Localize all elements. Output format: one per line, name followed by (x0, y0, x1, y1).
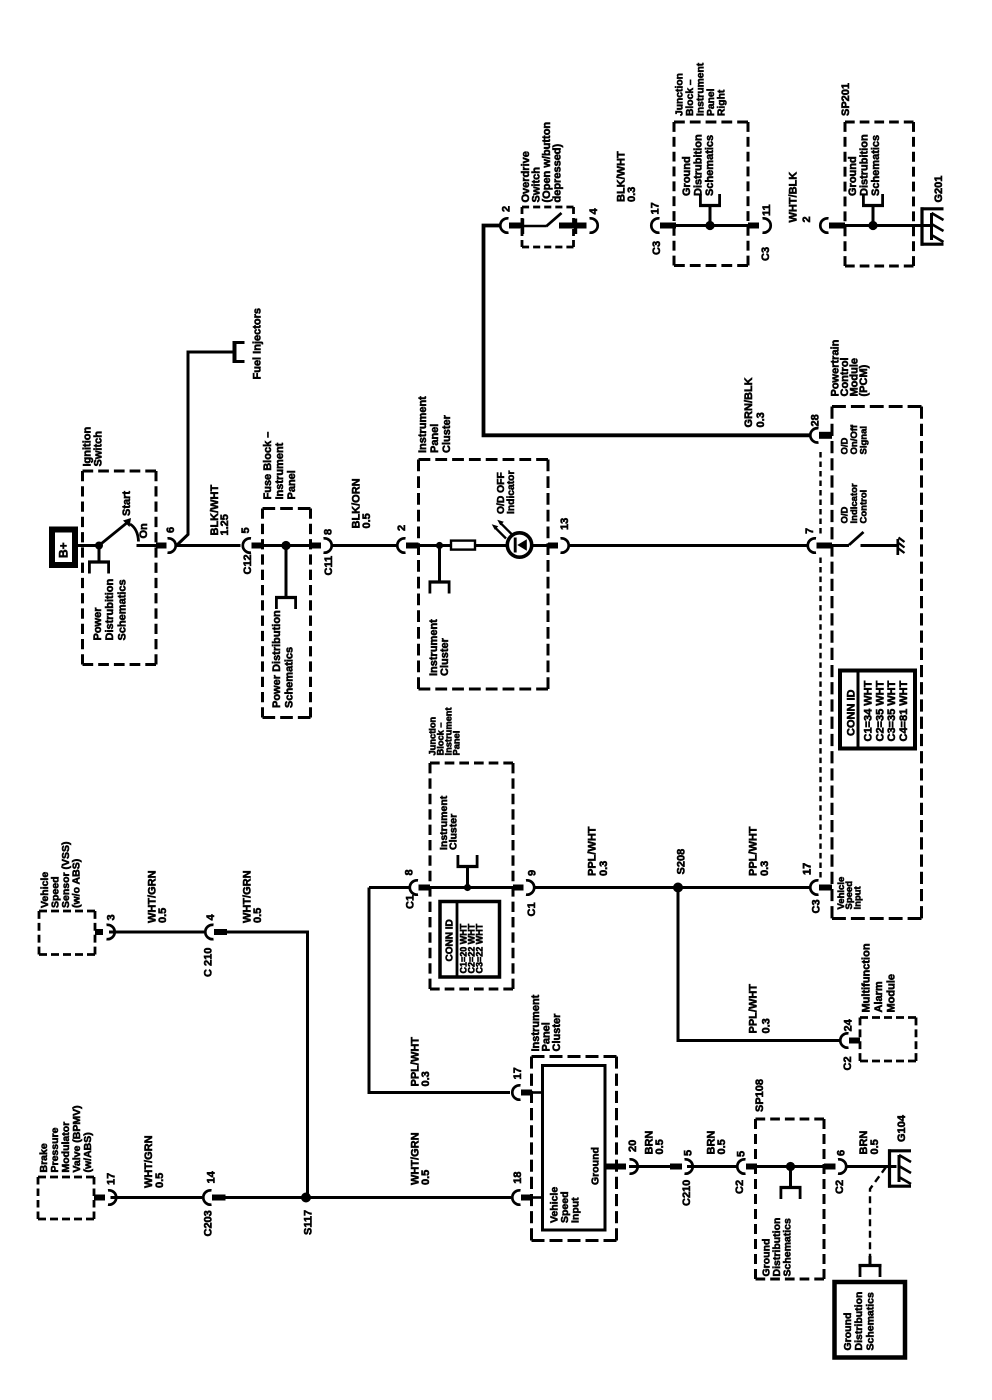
svg-text:2: 2 (396, 525, 408, 531)
svg-text:4: 4 (205, 914, 217, 921)
svg-text:(w/ABS): (w/ABS) (82, 1132, 94, 1172)
svg-text:WHT/BLK: WHT/BLK (788, 172, 800, 223)
svg-text:On: On (138, 523, 150, 539)
svg-text:1.25: 1.25 (219, 514, 231, 535)
svg-text:Ground: Ground (847, 156, 859, 196)
svg-text:Indicator: Indicator (506, 471, 517, 514)
svg-text:G104: G104 (896, 1114, 908, 1142)
svg-text:8: 8 (323, 529, 335, 535)
svg-text:13: 13 (559, 518, 571, 530)
svg-text:Junction: Junction (675, 73, 686, 116)
svg-text:Cluster: Cluster (448, 814, 460, 850)
svg-text:0.3: 0.3 (598, 861, 610, 876)
svg-text:Control: Control (859, 490, 870, 524)
svg-text:Power: Power (92, 607, 104, 641)
svg-text:C12: C12 (242, 554, 254, 574)
svg-text:Start: Start (121, 491, 133, 516)
svg-text:6: 6 (836, 1150, 848, 1156)
svg-text:SP201: SP201 (840, 83, 852, 116)
svg-text:Distrubition: Distrubition (693, 134, 705, 196)
svg-text:Alarm: Alarm (873, 981, 885, 1012)
svg-text:0.5: 0.5 (154, 1173, 166, 1188)
svg-text:Cluster: Cluster (439, 637, 451, 676)
svg-text:Distrubition: Distrubition (104, 579, 116, 641)
svg-text:PPL/WHT: PPL/WHT (587, 826, 599, 876)
svg-text:0.3: 0.3 (626, 187, 638, 202)
svg-text:C2: C2 (842, 1056, 854, 1070)
svg-text:Input: Input (853, 885, 864, 909)
svg-text:C3: C3 (811, 899, 823, 913)
svg-text:Switch: Switch (93, 431, 105, 467)
svg-text:0.5: 0.5 (716, 1139, 728, 1154)
svg-text:3: 3 (106, 914, 118, 920)
svg-text:Schematics: Schematics (117, 579, 129, 640)
svg-text:Schematics: Schematics (284, 647, 296, 708)
svg-text:CONN ID: CONN ID (846, 690, 858, 737)
svg-text:14: 14 (206, 1170, 218, 1183)
svg-text:2: 2 (501, 206, 513, 212)
svg-text:C203: C203 (203, 1210, 215, 1236)
svg-text:(PCM): (PCM) (858, 364, 870, 396)
svg-text:Panel: Panel (452, 731, 462, 756)
svg-text:C 210: C 210 (203, 948, 215, 977)
svg-text:17: 17 (512, 1067, 524, 1079)
svg-text:Distrubition: Distrubition (859, 134, 871, 196)
svg-text:24: 24 (843, 1018, 855, 1031)
svg-text:Block –: Block – (685, 79, 696, 116)
svg-text:C1: C1 (526, 902, 538, 916)
svg-text:28: 28 (810, 414, 822, 426)
svg-text:6: 6 (165, 527, 177, 533)
svg-text:B+: B+ (57, 542, 71, 558)
svg-text:0.3: 0.3 (420, 1071, 432, 1086)
svg-text:Fuel Injectors: Fuel Injectors (252, 308, 264, 380)
svg-text:17: 17 (650, 202, 662, 214)
svg-text:2: 2 (801, 216, 813, 222)
svg-text:11: 11 (761, 204, 773, 216)
svg-text:Ground: Ground (681, 156, 693, 196)
svg-text:0.3: 0.3 (761, 1018, 773, 1033)
svg-text:Schematics: Schematics (704, 135, 716, 196)
svg-text:Instrument: Instrument (417, 396, 429, 453)
svg-text:Right: Right (717, 89, 728, 116)
svg-text:0.5: 0.5 (420, 1170, 432, 1185)
svg-text:S208: S208 (676, 849, 688, 875)
svg-text:Instrument: Instrument (696, 62, 707, 116)
svg-text:C11: C11 (323, 556, 335, 576)
svg-text:0.5: 0.5 (157, 908, 169, 923)
svg-text:18: 18 (512, 1172, 524, 1184)
svg-text:17: 17 (802, 863, 814, 875)
svg-text:Panel: Panel (286, 470, 298, 499)
svg-text:5: 5 (683, 1150, 695, 1156)
svg-text:Fuse Block –: Fuse Block – (262, 432, 274, 500)
svg-text:S117: S117 (303, 1210, 315, 1235)
svg-text:0.5: 0.5 (654, 1139, 666, 1154)
svg-text:(w/o ABS): (w/o ABS) (71, 859, 83, 908)
svg-text:Panel: Panel (429, 424, 441, 453)
svg-text:4: 4 (588, 208, 600, 215)
svg-text:C3=22 WHT: C3=22 WHT (475, 923, 485, 973)
svg-text:C2: C2 (834, 1180, 846, 1194)
svg-text:0.5: 0.5 (361, 513, 373, 528)
svg-text:7: 7 (804, 528, 816, 534)
svg-text:Panel: Panel (706, 88, 717, 116)
svg-text:Multifunction: Multifunction (861, 943, 873, 1012)
svg-text:C1: C1 (405, 895, 417, 909)
svg-text:Distribution: Distribution (853, 1292, 865, 1351)
svg-text:17: 17 (106, 1173, 118, 1185)
svg-text:0.5: 0.5 (252, 908, 264, 923)
svg-text:C2: C2 (734, 1180, 746, 1194)
svg-text:G201: G201 (933, 176, 945, 203)
svg-text:C3: C3 (760, 247, 772, 261)
svg-text:5: 5 (736, 1151, 748, 1157)
svg-text:Schematics: Schematics (865, 1292, 877, 1351)
svg-text:20: 20 (627, 1140, 639, 1152)
svg-text:PPL/WHT: PPL/WHT (748, 826, 760, 876)
svg-text:depressed): depressed) (552, 143, 564, 202)
svg-text:C210: C210 (681, 1180, 693, 1206)
svg-text:SP108: SP108 (754, 1079, 766, 1112)
svg-text:CONN ID: CONN ID (445, 919, 456, 961)
svg-text:C3: C3 (651, 241, 663, 255)
svg-text:9: 9 (527, 870, 539, 876)
svg-text:8: 8 (404, 869, 416, 875)
svg-text:Module: Module (886, 974, 898, 1013)
svg-text:0.3: 0.3 (755, 412, 767, 427)
svg-text:C1=34 WHT: C1=34 WHT (863, 680, 875, 741)
svg-text:Cluster: Cluster (441, 414, 453, 453)
svg-text:Schematics: Schematics (782, 1218, 794, 1277)
svg-text:Signal: Signal (859, 426, 870, 455)
svg-text:Ground: Ground (590, 1147, 602, 1185)
svg-text:Schematics: Schematics (870, 135, 882, 196)
svg-text:5: 5 (240, 527, 252, 533)
svg-text:C3=35 WHT: C3=35 WHT (886, 680, 898, 741)
svg-text:0.5: 0.5 (869, 1139, 881, 1154)
svg-text:0.3: 0.3 (759, 861, 771, 876)
svg-text:GRN/BLK: GRN/BLK (743, 377, 755, 427)
svg-text:Input: Input (570, 1197, 582, 1223)
svg-text:Power Distribution: Power Distribution (271, 610, 283, 708)
svg-text:C2=35 WHT: C2=35 WHT (875, 680, 887, 741)
svg-text:PPL/WHT: PPL/WHT (748, 984, 760, 1034)
svg-text:C4=81 WHT: C4=81 WHT (898, 680, 910, 741)
svg-text:Cluster: Cluster (551, 1013, 563, 1052)
svg-text:Instrument: Instrument (274, 442, 286, 499)
